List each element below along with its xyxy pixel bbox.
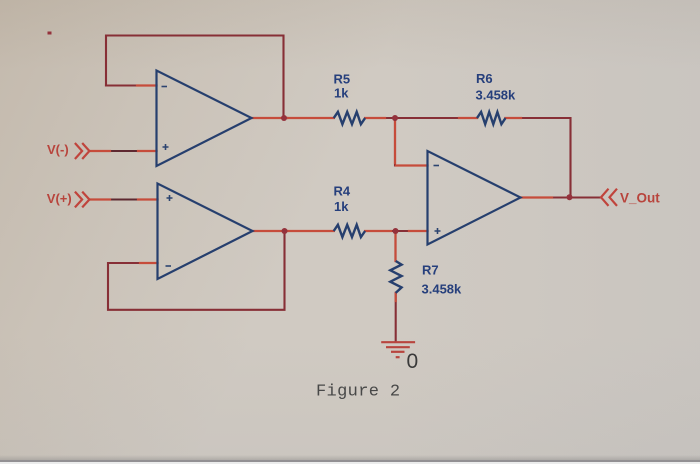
svg-text:V_Out: V_Out bbox=[620, 190, 660, 205]
svg-text:V(-): V(-) bbox=[47, 142, 69, 157]
svg-text:R5: R5 bbox=[334, 71, 351, 86]
svg-text:Figure 2: Figure 2 bbox=[316, 383, 400, 402]
svg-text:3.458k: 3.458k bbox=[422, 281, 463, 296]
svg-text:R4: R4 bbox=[334, 184, 351, 199]
svg-text:3.458k: 3.458k bbox=[476, 88, 517, 103]
svg-text:0: 0 bbox=[407, 350, 419, 373]
svg-text:V(+): V(+) bbox=[47, 191, 72, 206]
svg-text:R6: R6 bbox=[476, 71, 493, 86]
svg-text:1k: 1k bbox=[334, 199, 349, 214]
svg-text:R7: R7 bbox=[422, 263, 439, 278]
svg-text:1k: 1k bbox=[334, 86, 349, 101]
